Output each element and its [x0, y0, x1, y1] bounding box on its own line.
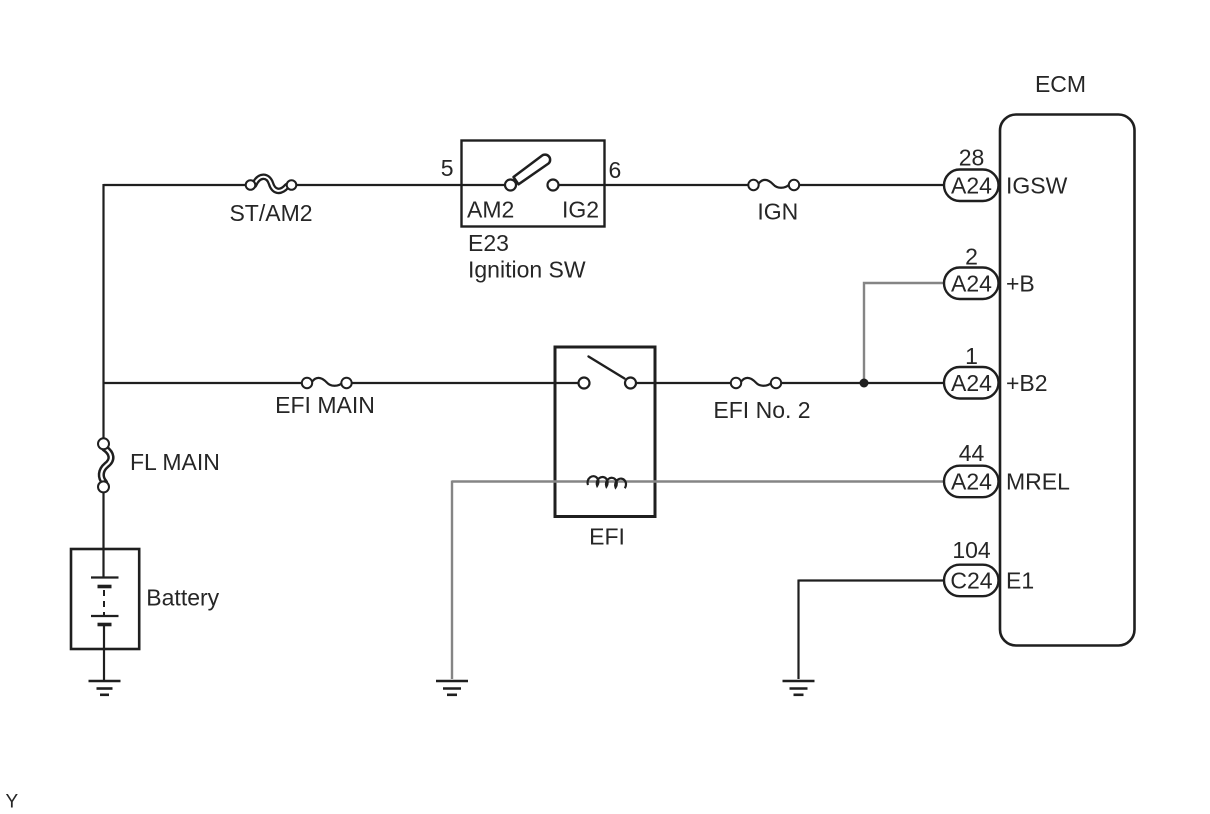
svg-text:MREL: MREL	[1006, 469, 1070, 495]
svg-text:IG2: IG2	[562, 197, 599, 223]
svg-text:Battery: Battery	[146, 585, 219, 611]
svg-text:EFI MAIN: EFI MAIN	[275, 392, 375, 418]
svg-text:ST/AM2: ST/AM2	[229, 200, 312, 226]
svg-text:A24: A24	[951, 469, 992, 495]
svg-text:EFI: EFI	[589, 524, 625, 550]
svg-text:IGN: IGN	[757, 199, 798, 225]
svg-text:+B: +B	[1006, 270, 1035, 296]
svg-text:A24: A24	[951, 370, 992, 396]
svg-text:A24: A24	[951, 270, 992, 296]
svg-text:IGSW: IGSW	[1006, 172, 1068, 198]
svg-text:E1: E1	[1006, 568, 1034, 594]
svg-text:44: 44	[959, 440, 985, 466]
svg-text:C24: C24	[950, 568, 992, 594]
svg-text:2: 2	[965, 244, 978, 270]
svg-text:ECM: ECM	[1035, 71, 1086, 97]
svg-text:6: 6	[609, 157, 622, 183]
svg-text:AM2: AM2	[467, 197, 514, 223]
svg-text:FL MAIN: FL MAIN	[130, 449, 220, 475]
svg-text:1: 1	[965, 343, 978, 369]
svg-text:5: 5	[441, 155, 454, 181]
svg-text:+B2: +B2	[1006, 370, 1048, 396]
svg-text:Ignition SW: Ignition SW	[468, 257, 586, 283]
svg-text:28: 28	[959, 145, 985, 171]
svg-text:E23: E23	[468, 230, 509, 256]
svg-text:A24: A24	[951, 172, 992, 198]
svg-text:EFI No. 2: EFI No. 2	[713, 397, 810, 423]
svg-text:104: 104	[952, 537, 991, 563]
svg-text:Y: Y	[6, 792, 19, 813]
